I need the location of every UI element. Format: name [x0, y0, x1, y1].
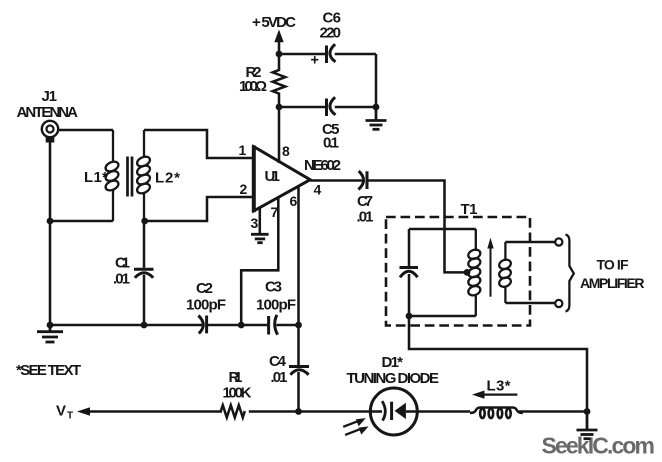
capacitor C3: [269, 315, 278, 335]
svg-text:+ 5VDC: + 5VDC: [252, 14, 296, 31]
wire C4 to VT line: [297, 372, 300, 412]
capacitor inside T1: [400, 268, 419, 278]
inductor T1 primary: [467, 229, 482, 316]
wire T1 bottom junction down and right: [409, 316, 587, 412]
pin 3 stub: [259, 208, 262, 234]
node dot right rail: [373, 104, 380, 111]
node dot R2 bottom: [276, 104, 283, 111]
node dot ground bus left: [47, 322, 54, 329]
wire R2 bottom node to C5: [279, 106, 326, 109]
node A junction antenna/L1: [47, 218, 54, 225]
wire bus C2 to C3: [207, 324, 269, 327]
wire bus down to C4: [297, 325, 300, 366]
svg-text:SeekIC.com: SeekIC.com: [542, 433, 656, 459]
ground bottom-left: [37, 325, 63, 342]
svg-text:T1: T1: [461, 201, 478, 218]
wire L2 top to pin1 step: [144, 130, 252, 158]
brace to IF amplifier: [566, 235, 574, 312]
wire right vertical C6-C5: [375, 54, 378, 107]
ground bottom-right: [577, 412, 598, 439]
svg-text:1: 1: [239, 142, 247, 158]
wire pin7 to bus: [241, 198, 278, 325]
node dot T1 bottom junction: [406, 313, 413, 320]
capacitor C5: [327, 97, 336, 116]
transformer core bars L1/L2: [128, 157, 133, 197]
light arrows at D1: [343, 418, 368, 435]
svg-text:T: T: [67, 411, 73, 422]
wire top rail from R2 top node to C6: [279, 53, 326, 56]
terminal top: [555, 238, 562, 245]
svg-text:AMPLIFIER: AMPLIFIER: [580, 275, 645, 291]
svg-text:J1: J1: [42, 88, 58, 105]
wire C7 to T1 center tap: [367, 181, 467, 273]
wire R1 to C4 node: [249, 410, 299, 413]
svg-text:0.1: 0.1: [323, 135, 339, 152]
svg-text:.01: .01: [357, 209, 374, 226]
inductor T1 secondary: [498, 242, 512, 303]
resistor R2: [273, 54, 286, 107]
wire J1 to L1 top: [59, 129, 114, 132]
capacitor C6: [327, 44, 336, 63]
node +5VDC supply arrow: [274, 30, 283, 55]
svg-text:100pF: 100pF: [256, 297, 296, 314]
svg-text:D1*: D1*: [382, 354, 404, 371]
node dot C1 on bus: [141, 322, 148, 329]
svg-text:.01: .01: [113, 271, 130, 288]
svg-text:L1*: L1*: [84, 169, 108, 186]
svg-text:100Ω: 100Ω: [239, 78, 267, 95]
label VT: [56, 403, 73, 422]
wire secondary bottom to terminal: [505, 302, 555, 305]
svg-text:L3*: L3*: [487, 378, 511, 395]
wire pin4 output to C7: [310, 179, 362, 182]
resistor R1: [221, 405, 245, 417]
ground under C5 rail: [366, 107, 387, 129]
wire VT line with arrow: [77, 407, 222, 416]
svg-text:6: 6: [290, 193, 298, 209]
wire T1 left vertical above cap: [408, 229, 411, 266]
wire secondary top to terminal: [505, 241, 555, 244]
node B junction L2 bottom: [141, 218, 148, 225]
capacitor C1: [134, 269, 154, 278]
svg-text:C1: C1: [115, 255, 130, 272]
svg-text:+: +: [311, 53, 319, 69]
svg-text:2: 2: [240, 181, 248, 197]
svg-text:R1: R1: [229, 369, 243, 386]
wire pin8 from R2 node to U1: [278, 107, 281, 163]
node dot T1 center tap: [464, 269, 471, 276]
capacitor C2: [198, 316, 206, 334]
wire T1 left branch top: [409, 228, 476, 231]
arrow above L3: [472, 391, 517, 399]
node dot R2 top: [276, 51, 283, 58]
svg-text:ANTENNA: ANTENNA: [17, 104, 79, 121]
wire L2 bottom to pin2 step: [145, 197, 252, 221]
wire C6 to right vertical: [335, 53, 376, 56]
transformer T1 dashed box: [386, 217, 530, 326]
wire L1 bottom to junction: [50, 220, 113, 223]
svg-text:8: 8: [282, 143, 290, 159]
tuning arrow inside T1: [487, 238, 493, 297]
inductor L1: [104, 130, 120, 221]
inductor L2: [136, 130, 152, 221]
capacitor C4: [289, 367, 309, 375]
capacitor C7: [358, 171, 367, 190]
node dot C4 on VT line: [295, 408, 302, 415]
wire T1 bottom branch: [409, 315, 476, 318]
svg-text:7: 7: [271, 204, 279, 220]
wire ground bus left: [50, 324, 203, 327]
svg-text:U1: U1: [265, 168, 281, 185]
wire J1 down to lower-left junction: [49, 142, 52, 221]
svg-text:V: V: [56, 403, 66, 420]
svg-text:C4: C4: [269, 353, 287, 370]
op-amp U1 NE602 triangle: [254, 146, 310, 213]
svg-text:C7: C7: [357, 193, 373, 210]
svg-text:C3: C3: [265, 279, 282, 296]
node dot L3 right junction: [584, 408, 591, 415]
svg-text:3: 3: [251, 215, 259, 231]
wire junction down to ground bus: [49, 221, 52, 325]
svg-text:TUNING DIODE: TUNING DIODE: [347, 370, 440, 387]
svg-text:NE602: NE602: [304, 157, 341, 174]
connector J1 antenna: [42, 121, 58, 143]
wire C5 to right vertical: [335, 106, 376, 109]
wire C4 node to D1: [299, 410, 371, 413]
wire L2 bottom down to C1: [143, 221, 146, 268]
wire pin6 down to bus: [297, 187, 300, 325]
wire D1 to L3: [417, 410, 470, 413]
svg-text:100pF: 100pF: [186, 297, 226, 314]
wire C1 to bus: [143, 275, 146, 325]
svg-text:100K: 100K: [223, 385, 252, 402]
wire bus C3 to C4 corner: [277, 324, 299, 327]
svg-text:*SEE TEXT: *SEE TEXT: [16, 362, 81, 379]
svg-text:.01: .01: [271, 369, 288, 386]
inductor L3: [470, 408, 523, 419]
wire T1 left vertical below cap: [408, 274, 411, 316]
svg-text:TO IF: TO IF: [597, 257, 629, 273]
wire L3 to right junction: [519, 410, 587, 413]
node dot pin6 junction on bus: [295, 322, 302, 329]
ground pin3: [251, 234, 269, 242]
diode D1 tuning diode: [370, 388, 417, 435]
svg-text:L2*: L2*: [155, 170, 180, 187]
svg-text:4: 4: [314, 182, 322, 198]
svg-text:220: 220: [320, 25, 342, 42]
terminal bottom: [555, 300, 562, 307]
node dot pin7 junction on bus: [238, 322, 245, 329]
svg-text:C2: C2: [196, 280, 213, 297]
